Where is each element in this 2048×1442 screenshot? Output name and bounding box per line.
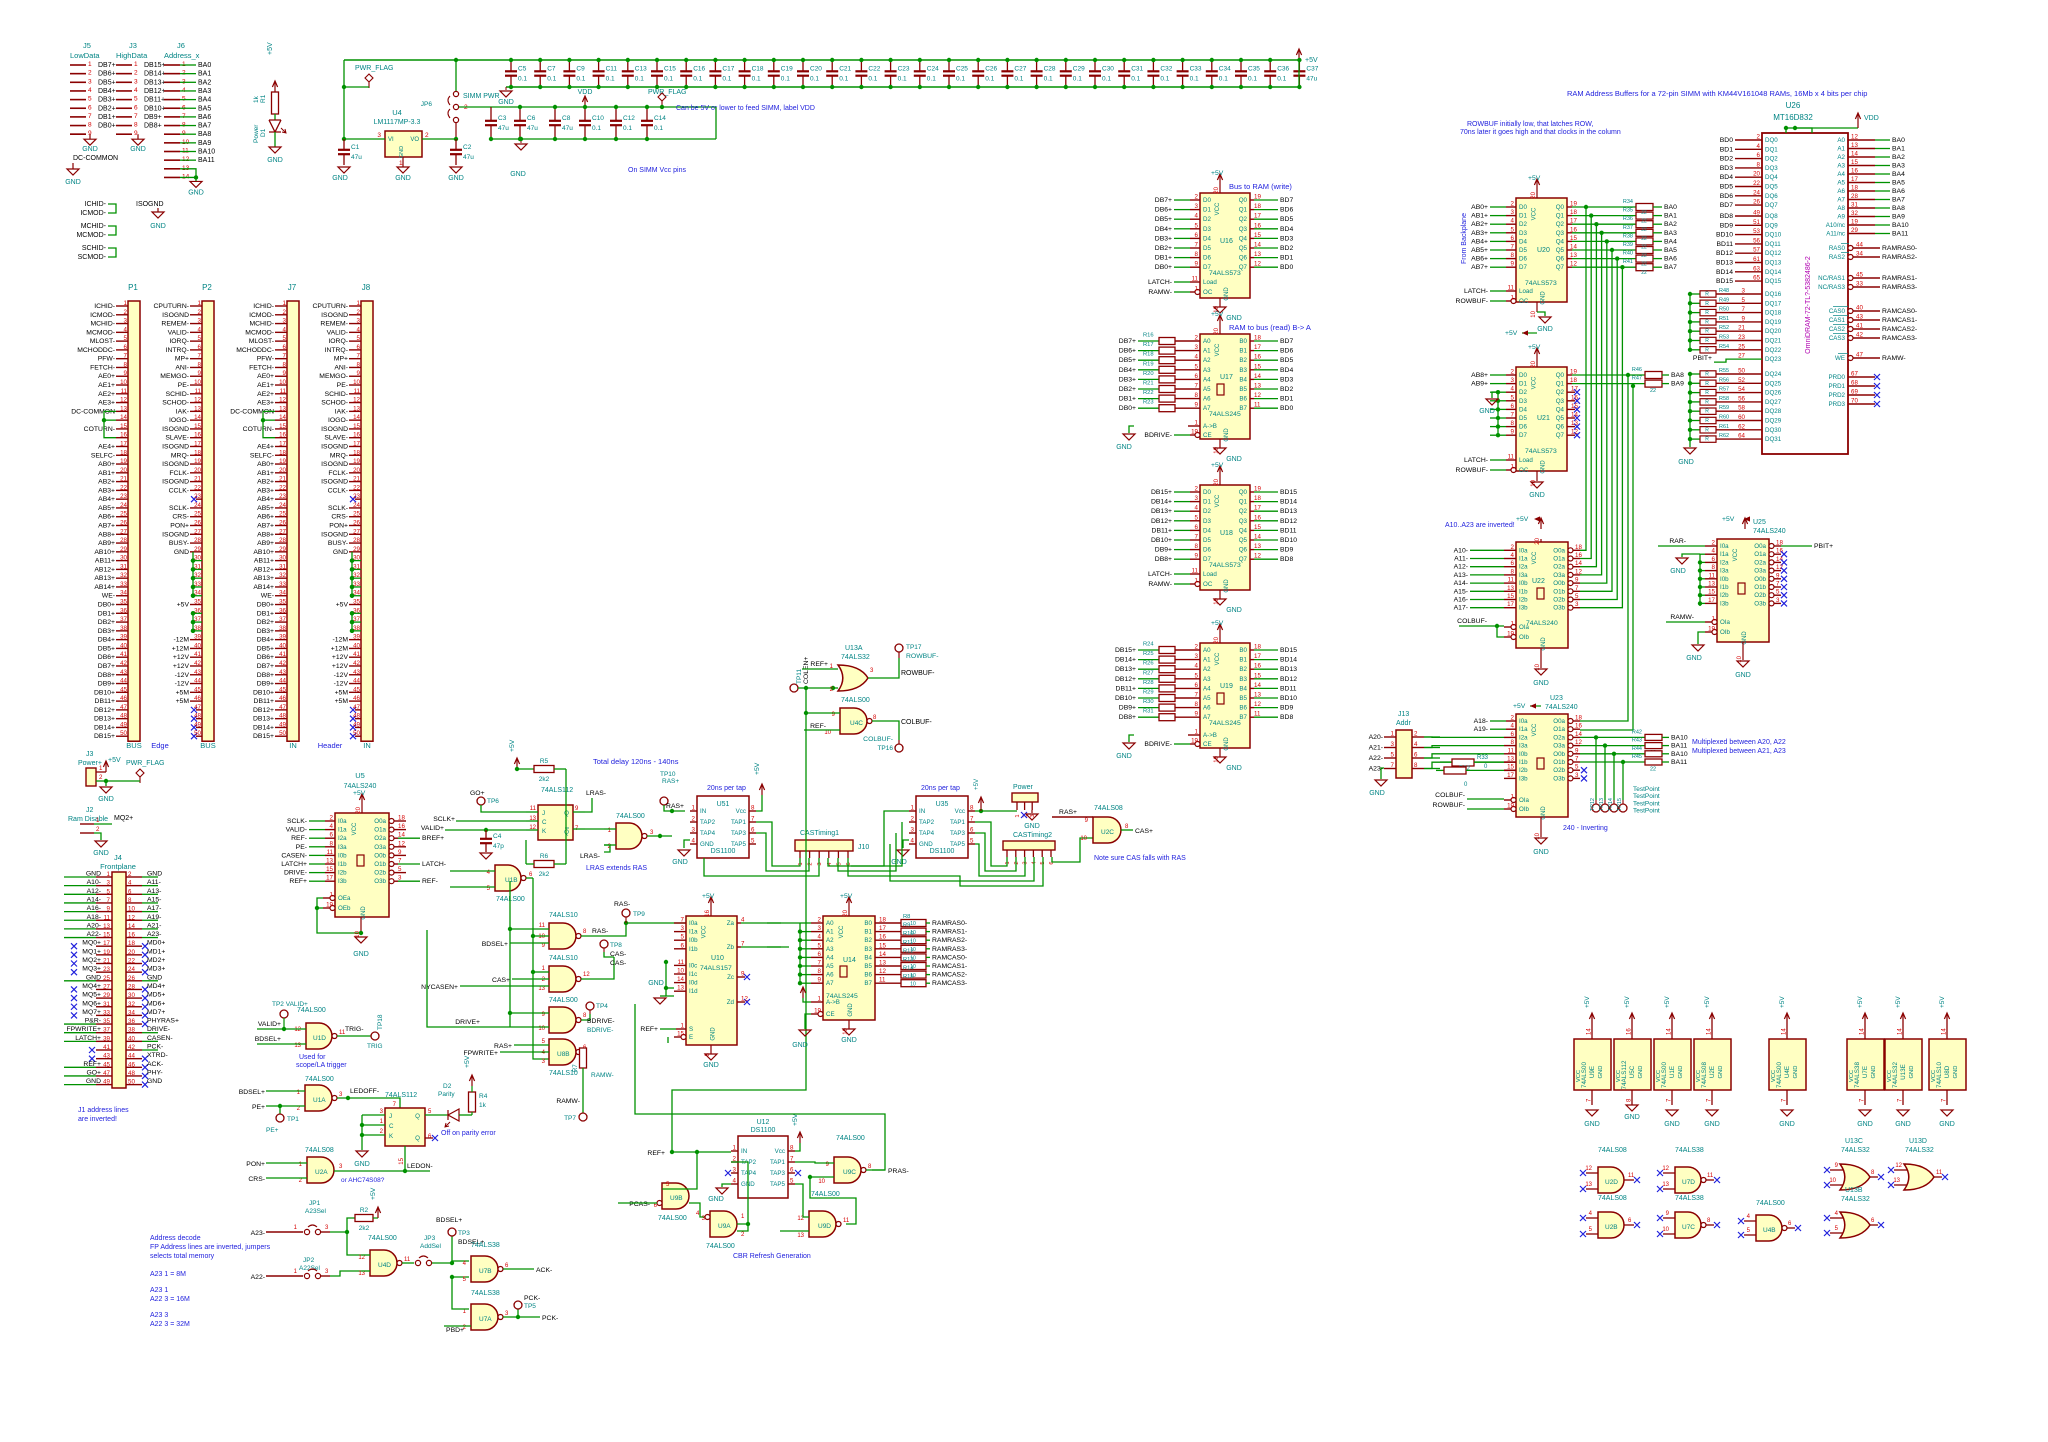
svg-text:I2a: I2a	[1519, 734, 1528, 741]
svg-text:PBIT+: PBIT+	[1814, 543, 1833, 550]
svg-text:CAS-: CAS-	[610, 960, 626, 967]
svg-text:A17-: A17-	[147, 905, 161, 912]
svg-text:O1b: O1b	[1553, 588, 1565, 595]
svg-text:8: 8	[88, 122, 92, 129]
svg-text:D3: D3	[1203, 226, 1211, 233]
svg-text:22: 22	[1641, 210, 1647, 216]
resistor R10	[901, 937, 926, 944]
svg-text:27: 27	[1738, 353, 1745, 360]
svg-text:74ALS38: 74ALS38	[1675, 1147, 1704, 1154]
svg-text:41: 41	[194, 651, 201, 658]
svg-text:IORQ-: IORQ-	[169, 338, 189, 345]
svg-text:2: 2	[911, 816, 915, 823]
svg-text:15: 15	[279, 423, 286, 430]
svg-text:DQ28: DQ28	[1765, 408, 1782, 415]
svg-text:RAMRAS2-: RAMRAS2-	[932, 937, 967, 944]
ic U20 74ALS573	[1516, 198, 1567, 302]
svg-text:33: 33	[279, 581, 286, 588]
svg-text:4: 4	[1414, 741, 1418, 748]
svg-text:+5V: +5V	[1624, 996, 1631, 1008]
svg-text:B5: B5	[1239, 386, 1247, 393]
svg-text:A10/nc: A10/nc	[1826, 222, 1845, 229]
svg-text:6: 6	[1414, 752, 1418, 759]
wire U12 TAP1 to U9C	[795, 1162, 834, 1163]
resistor R5	[515, 767, 519, 771]
svg-text:COLBUF-: COLBUF-	[1457, 618, 1487, 625]
svg-text:SIMM PWR: SIMM PWR	[463, 93, 500, 100]
svg-text:AB9+: AB9+	[257, 540, 274, 547]
svg-text:46: 46	[194, 695, 201, 702]
ic U4E power pins	[1769, 1039, 1806, 1090]
svg-text:R41: R41	[1623, 259, 1633, 265]
svg-text:CE: CE	[1203, 741, 1212, 748]
svg-text:RAMCAS1-: RAMCAS1-	[932, 963, 967, 970]
testpoint TP1	[279, 1106, 281, 1114]
svg-text:14: 14	[128, 923, 135, 930]
svg-text:DB14+: DB14+	[1115, 657, 1136, 664]
svg-text:D1: D1	[1519, 381, 1527, 388]
svg-text:4: 4	[1511, 386, 1515, 393]
svg-text:47: 47	[120, 704, 127, 711]
ground U22	[1540, 648, 1542, 668]
svg-text:22: 22	[1641, 262, 1647, 268]
svg-text:0.1: 0.1	[1102, 76, 1111, 83]
svg-text:BA2: BA2	[198, 79, 211, 86]
svg-text:AE1+: AE1+	[98, 382, 115, 389]
ground U26 resistor rail	[1684, 448, 1696, 454]
svg-text:I2a: I2a	[1720, 559, 1729, 566]
svg-text:GND: GND	[188, 189, 204, 196]
svg-text:R5: R5	[540, 758, 549, 765]
ground J2	[95, 841, 107, 847]
ic U23 74ALS240	[1516, 714, 1568, 817]
svg-text:PWR_FLAG: PWR_FLAG	[648, 89, 687, 96]
svg-text:BDRIVE-: BDRIVE-	[1144, 741, 1172, 748]
svg-text:31: 31	[1851, 202, 1858, 209]
svg-text:13: 13	[1254, 383, 1261, 390]
svg-text:1: 1	[1195, 286, 1199, 293]
svg-text:11: 11	[195, 388, 202, 395]
svg-text:5: 5	[1195, 672, 1199, 679]
svg-text:HighData: HighData	[116, 51, 148, 60]
svg-text:AE2+: AE2+	[257, 391, 274, 398]
svg-text:15: 15	[1507, 593, 1514, 600]
svg-text:DQ10: DQ10	[1765, 232, 1782, 239]
svg-text:17: 17	[879, 925, 886, 932]
svg-text:C7: C7	[547, 66, 556, 73]
ic U7E power pins	[1847, 1039, 1884, 1090]
svg-text:DB15+: DB15+	[1115, 647, 1136, 654]
svg-text:12: 12	[194, 397, 201, 404]
svg-text:8: 8	[198, 361, 202, 368]
svg-text:19: 19	[1254, 194, 1261, 201]
svg-text:-12V: -12V	[175, 681, 190, 688]
svg-text:4: 4	[1195, 663, 1199, 670]
svg-text:TAP1: TAP1	[950, 819, 966, 826]
svg-text:22: 22	[1641, 219, 1647, 225]
svg-text:BD7: BD7	[1720, 202, 1733, 209]
svg-text:FCLK-: FCLK-	[328, 470, 348, 477]
svg-text:42: 42	[128, 1044, 135, 1051]
svg-text:DQ9: DQ9	[1765, 222, 1778, 229]
svg-text:SELFC-: SELFC-	[250, 452, 274, 459]
svg-text:U13A: U13A	[845, 645, 863, 652]
svg-text:B4: B4	[1239, 685, 1247, 692]
svg-text:TRIG-: TRIG-	[345, 1026, 364, 1033]
svg-text:0.1: 0.1	[654, 125, 663, 132]
svg-text:+5V: +5V	[1779, 996, 1786, 1008]
wire JP2 to U40	[330, 1271, 362, 1276]
svg-text:C: C	[542, 819, 547, 826]
svg-text:29: 29	[103, 992, 110, 999]
svg-text:2: 2	[283, 309, 287, 316]
svg-text:74ALS00: 74ALS00	[706, 1243, 735, 1250]
testpoint TP11 COLEN+	[790, 684, 798, 692]
wire RAS+ to U51	[664, 805, 685, 811]
svg-text:VALID-: VALID-	[286, 827, 307, 834]
svg-text:15: 15	[1571, 403, 1578, 410]
svg-text:R56: R56	[1719, 377, 1729, 383]
svg-text:C23: C23	[898, 66, 910, 73]
svg-text:GND: GND	[267, 157, 283, 164]
svg-text:TAP4: TAP4	[741, 1170, 757, 1177]
ic U5C power pins	[1614, 1039, 1651, 1090]
svg-text:74ALS00: 74ALS00	[297, 1007, 326, 1014]
svg-text:50: 50	[194, 730, 201, 737]
svg-text:B5: B5	[1239, 695, 1247, 702]
svg-text:5: 5	[970, 838, 974, 845]
svg-text:BA8: BA8	[1892, 205, 1905, 212]
svg-text:22: 22	[279, 484, 286, 491]
svg-text:10: 10	[279, 379, 286, 386]
svg-text:8: 8	[1195, 543, 1199, 550]
svg-text:8: 8	[128, 897, 132, 904]
svg-text:24: 24	[279, 502, 286, 509]
svg-text:51: 51	[1753, 219, 1760, 226]
svg-text:20: 20	[279, 467, 286, 474]
svg-text:TestPoint: TestPoint	[1633, 800, 1660, 807]
capacitor C9	[568, 60, 570, 71]
svg-text:A17-: A17-	[1454, 605, 1468, 612]
testpoint TP16	[898, 740, 900, 744]
svg-text:C22: C22	[868, 66, 880, 73]
power U22 top wire	[1540, 539, 1542, 542]
svg-text:D7: D7	[1203, 264, 1211, 271]
svg-text:O0a: O0a	[1754, 543, 1766, 550]
svg-text:74ALS00: 74ALS00	[811, 1191, 840, 1198]
capacitor C13	[627, 60, 629, 71]
svg-text:CE: CE	[826, 1011, 835, 1018]
capacitor C32	[1152, 60, 1154, 71]
testpoint TP17	[898, 652, 900, 658]
wire JP6 bottom to VO	[455, 122, 457, 139]
svg-text:3: 3	[1742, 288, 1746, 295]
svg-text:DB8+: DB8+	[257, 672, 274, 679]
svg-text:WE: WE	[1835, 355, 1845, 362]
wire U8A inputs	[533, 971, 549, 973]
svg-text:MD7+: MD7+	[147, 1009, 165, 1016]
svg-text:B1: B1	[1239, 657, 1247, 664]
svg-text:4: 4	[283, 326, 287, 333]
svg-text:RAM to bus (read) B-> A: RAM to bus (read) B-> A	[1229, 323, 1311, 332]
svg-text:10: 10	[824, 730, 831, 736]
svg-text:R12: R12	[903, 948, 914, 954]
svg-text:240 - Inverting: 240 - Inverting	[1563, 825, 1608, 832]
svg-text:DB3+: DB3+	[257, 628, 274, 635]
svg-text:0.1: 0.1	[693, 76, 702, 83]
svg-text:DC-COMMON: DC-COMMON	[73, 155, 118, 162]
svg-text:9: 9	[818, 977, 822, 984]
svg-text:38: 38	[120, 625, 127, 632]
svg-text:3: 3	[1195, 653, 1199, 660]
svg-text:21: 21	[103, 958, 110, 965]
svg-text:I3a: I3a	[1519, 572, 1528, 579]
svg-text:+5V: +5V	[108, 757, 121, 764]
svg-text:REF-: REF-	[291, 835, 307, 842]
svg-text:29: 29	[120, 546, 127, 553]
svg-text:9: 9	[1195, 553, 1199, 560]
svg-text:2: 2	[99, 774, 103, 781]
svg-text:GND: GND	[1224, 579, 1230, 593]
svg-text:16: 16	[1851, 168, 1858, 175]
svg-text:14: 14	[1860, 1028, 1866, 1035]
svg-text:MLOST-: MLOST-	[90, 338, 115, 345]
svg-text:RAS0: RAS0	[1829, 245, 1846, 252]
svg-text:CASEN-: CASEN-	[147, 1035, 173, 1042]
svg-text:ISOGND: ISOGND	[321, 426, 348, 433]
svg-text:A19-: A19-	[147, 914, 161, 921]
svg-text:A13-: A13-	[1454, 572, 1468, 579]
svg-text:A7: A7	[1837, 197, 1845, 204]
svg-text:10: 10	[677, 968, 684, 975]
svg-text:14: 14	[194, 414, 201, 421]
svg-text:40: 40	[194, 642, 201, 649]
svg-text:9: 9	[1195, 402, 1199, 409]
svg-text:33: 33	[1856, 281, 1863, 288]
svg-text:11: 11	[1254, 711, 1261, 718]
wire U5A pin15 down	[404, 1146, 406, 1171]
svg-text:VALID+: VALID+	[421, 825, 444, 832]
svg-text:AE0+: AE0+	[257, 373, 274, 380]
svg-text:ICMOD-: ICMOD-	[90, 312, 115, 319]
svg-text:13: 13	[1662, 1182, 1669, 1188]
svg-text:11: 11	[530, 806, 537, 812]
svg-text:DB2+: DB2+	[1155, 245, 1172, 252]
svg-text:CRS-: CRS-	[172, 514, 189, 521]
svg-text:2k2: 2k2	[539, 776, 550, 783]
svg-text:U10: U10	[711, 955, 724, 962]
gate U8B 74ALS10	[549, 1039, 576, 1065]
svg-text:0.1: 0.1	[810, 76, 819, 83]
svg-text:ANI-: ANI-	[175, 364, 189, 371]
svg-text:R: R	[1705, 329, 1709, 335]
svg-text:J5: J5	[83, 41, 91, 50]
svg-text:50: 50	[279, 730, 286, 737]
svg-text:ISOGND: ISOGND	[321, 461, 348, 468]
svg-text:R27: R27	[1143, 670, 1154, 676]
svg-text:LATCH-: LATCH-	[1464, 457, 1488, 464]
svg-text:11: 11	[539, 923, 546, 929]
svg-text:1: 1	[1195, 578, 1199, 585]
svg-text:RAMW-: RAMW-	[1670, 614, 1694, 621]
svg-text:16: 16	[353, 432, 360, 439]
svg-text:OIa: OIa	[1519, 797, 1530, 804]
wire J6 pins 13,14 to ground	[180, 169, 196, 178]
svg-text:2: 2	[425, 132, 429, 139]
svg-text:BA4: BA4	[1664, 238, 1677, 245]
svg-text:Ram Disable: Ram Disable	[68, 816, 108, 823]
svg-text:PRD3: PRD3	[1828, 401, 1845, 408]
svg-text:CAS+: CAS+	[1135, 828, 1153, 835]
svg-text:A4: A4	[1203, 376, 1211, 383]
svg-text:1: 1	[1391, 731, 1395, 738]
svg-text:R28: R28	[1143, 680, 1154, 686]
svg-text:4: 4	[692, 838, 696, 845]
testpoint TP9	[624, 921, 628, 925]
svg-text:16: 16	[1254, 514, 1261, 521]
svg-text:MRQ-: MRQ-	[171, 452, 189, 459]
svg-text:DB0+: DB0+	[1119, 405, 1136, 412]
svg-text:A22Sel: A22Sel	[299, 1265, 321, 1272]
svg-text:16: 16	[128, 932, 135, 939]
svg-text:O1b: O1b	[374, 861, 386, 868]
svg-text:LATCH-: LATCH-	[422, 861, 446, 868]
svg-text:I1a: I1a	[338, 827, 347, 834]
svg-text:DQ12: DQ12	[1765, 250, 1782, 257]
svg-text:MCHID-: MCHID-	[249, 321, 274, 328]
svg-text:I3b: I3b	[1519, 605, 1528, 612]
svg-text:22: 22	[1641, 244, 1647, 250]
ic U14 74ALS245	[823, 916, 875, 1020]
svg-text:74ALS245: 74ALS245	[1209, 411, 1241, 418]
svg-text:VCC: VCC	[1616, 1070, 1622, 1082]
svg-text:GND: GND	[333, 549, 348, 556]
svg-text:C15: C15	[664, 66, 676, 73]
svg-text:VCC: VCC	[1656, 1070, 1662, 1082]
svg-text:GND: GND	[65, 179, 81, 186]
svg-text:29: 29	[279, 546, 286, 553]
svg-text:O3a: O3a	[1553, 572, 1565, 579]
svg-text:OC: OC	[1519, 467, 1529, 474]
svg-text:14: 14	[353, 414, 360, 421]
svg-text:S: S	[689, 1026, 693, 1033]
svg-text:PBD+: PBD+	[446, 1327, 464, 1334]
power U26 VDD	[1786, 128, 1812, 133]
svg-text:DRIVE-: DRIVE-	[284, 870, 307, 877]
svg-text:37: 37	[194, 616, 201, 623]
svg-text:DB4+: DB4+	[257, 637, 274, 644]
svg-text:IN: IN	[700, 808, 706, 815]
svg-text:BA0: BA0	[198, 62, 211, 69]
svg-text:4: 4	[733, 1178, 737, 1185]
svg-text:CE: CE	[1203, 432, 1212, 439]
resistor R61	[1690, 429, 1700, 431]
svg-text:BD0: BD0	[1280, 405, 1293, 412]
svg-text:R30: R30	[1143, 699, 1154, 705]
svg-text:BA9: BA9	[198, 140, 211, 147]
svg-text:TAP5: TAP5	[950, 841, 966, 848]
svg-text:MQ1+: MQ1+	[82, 948, 101, 955]
wire VI	[344, 138, 385, 140]
ic U51 DS1100 delay line	[697, 796, 749, 858]
svg-text:30: 30	[128, 992, 135, 999]
ic U26 left DQ pins	[1735, 139, 1762, 141]
svg-text:MD1+: MD1+	[147, 948, 165, 955]
svg-text:DB1+: DB1+	[98, 114, 116, 121]
svg-text:PRD0: PRD0	[1828, 374, 1845, 381]
svg-text:6: 6	[128, 888, 132, 895]
ic U5 enable pins	[323, 897, 335, 899]
svg-text:DB12+: DB12+	[144, 88, 166, 95]
svg-text:IOGO-: IOGO-	[328, 417, 348, 424]
svg-text:Q1: Q1	[1556, 213, 1565, 220]
svg-text:O1a: O1a	[374, 827, 386, 834]
svg-text:45: 45	[120, 686, 127, 693]
svg-text:+5V: +5V	[1513, 703, 1526, 710]
svg-text:GND: GND	[1116, 444, 1132, 451]
svg-text:RAMCAS2-: RAMCAS2-	[932, 972, 967, 979]
svg-text:U4E: U4E	[1784, 1066, 1791, 1078]
svg-text:3: 3	[377, 132, 381, 139]
svg-text:6: 6	[1511, 731, 1515, 738]
ground D1	[269, 147, 281, 153]
svg-text:0.1: 0.1	[956, 76, 965, 83]
svg-text:TP1: TP1	[287, 1116, 299, 1123]
svg-text:GND: GND	[332, 175, 348, 182]
wire U8B out to R7	[581, 1051, 583, 1053]
svg-text:REF+: REF+	[289, 878, 307, 885]
svg-text:C3: C3	[498, 115, 507, 122]
resistor R12	[901, 954, 926, 961]
svg-text:0.1: 0.1	[868, 76, 877, 83]
svg-text:A23 1 = 8M: A23 1 = 8M	[150, 1271, 186, 1278]
svg-text:19: 19	[353, 458, 360, 465]
svg-text:PE+: PE+	[266, 1127, 279, 1134]
svg-text:74ALS08: 74ALS08	[1094, 805, 1123, 812]
svg-text:5: 5	[1195, 514, 1199, 521]
power U20	[1536, 190, 1538, 198]
svg-text:4: 4	[1195, 505, 1199, 512]
svg-text:16: 16	[194, 432, 201, 439]
svg-text:22: 22	[128, 958, 135, 965]
svg-text:DB12+: DB12+	[1115, 676, 1136, 683]
svg-text:C13: C13	[635, 66, 647, 73]
svg-text:26: 26	[128, 975, 135, 982]
svg-text:BD15: BD15	[1280, 489, 1297, 496]
svg-text:3: 3	[1575, 601, 1579, 608]
svg-text:25: 25	[279, 511, 286, 518]
svg-text:DB6+: DB6+	[98, 71, 116, 78]
svg-text:2: 2	[134, 70, 138, 77]
svg-text:+5V: +5V	[1895, 996, 1902, 1008]
svg-text:13: 13	[1507, 585, 1514, 592]
svg-text:10: 10	[128, 906, 135, 913]
svg-text:47p: 47p	[493, 843, 504, 850]
svg-text:J: J	[389, 1113, 392, 1120]
wire U7B out ACK-	[503, 1268, 534, 1270]
svg-text:D3: D3	[1203, 518, 1211, 525]
svg-text:Zc: Zc	[727, 974, 734, 981]
svg-text:A13-: A13-	[147, 888, 161, 895]
svg-text:BD5: BD5	[1280, 216, 1293, 223]
wire U14 input rail	[799, 923, 801, 983]
svg-text:14: 14	[1587, 1028, 1593, 1035]
svg-text:A5: A5	[826, 963, 834, 970]
svg-text:AB7+: AB7+	[1471, 264, 1488, 271]
svg-text:DQ0: DQ0	[1765, 137, 1778, 144]
svg-text:DQ18: DQ18	[1765, 310, 1782, 317]
svg-text:GND: GND	[1541, 806, 1547, 820]
